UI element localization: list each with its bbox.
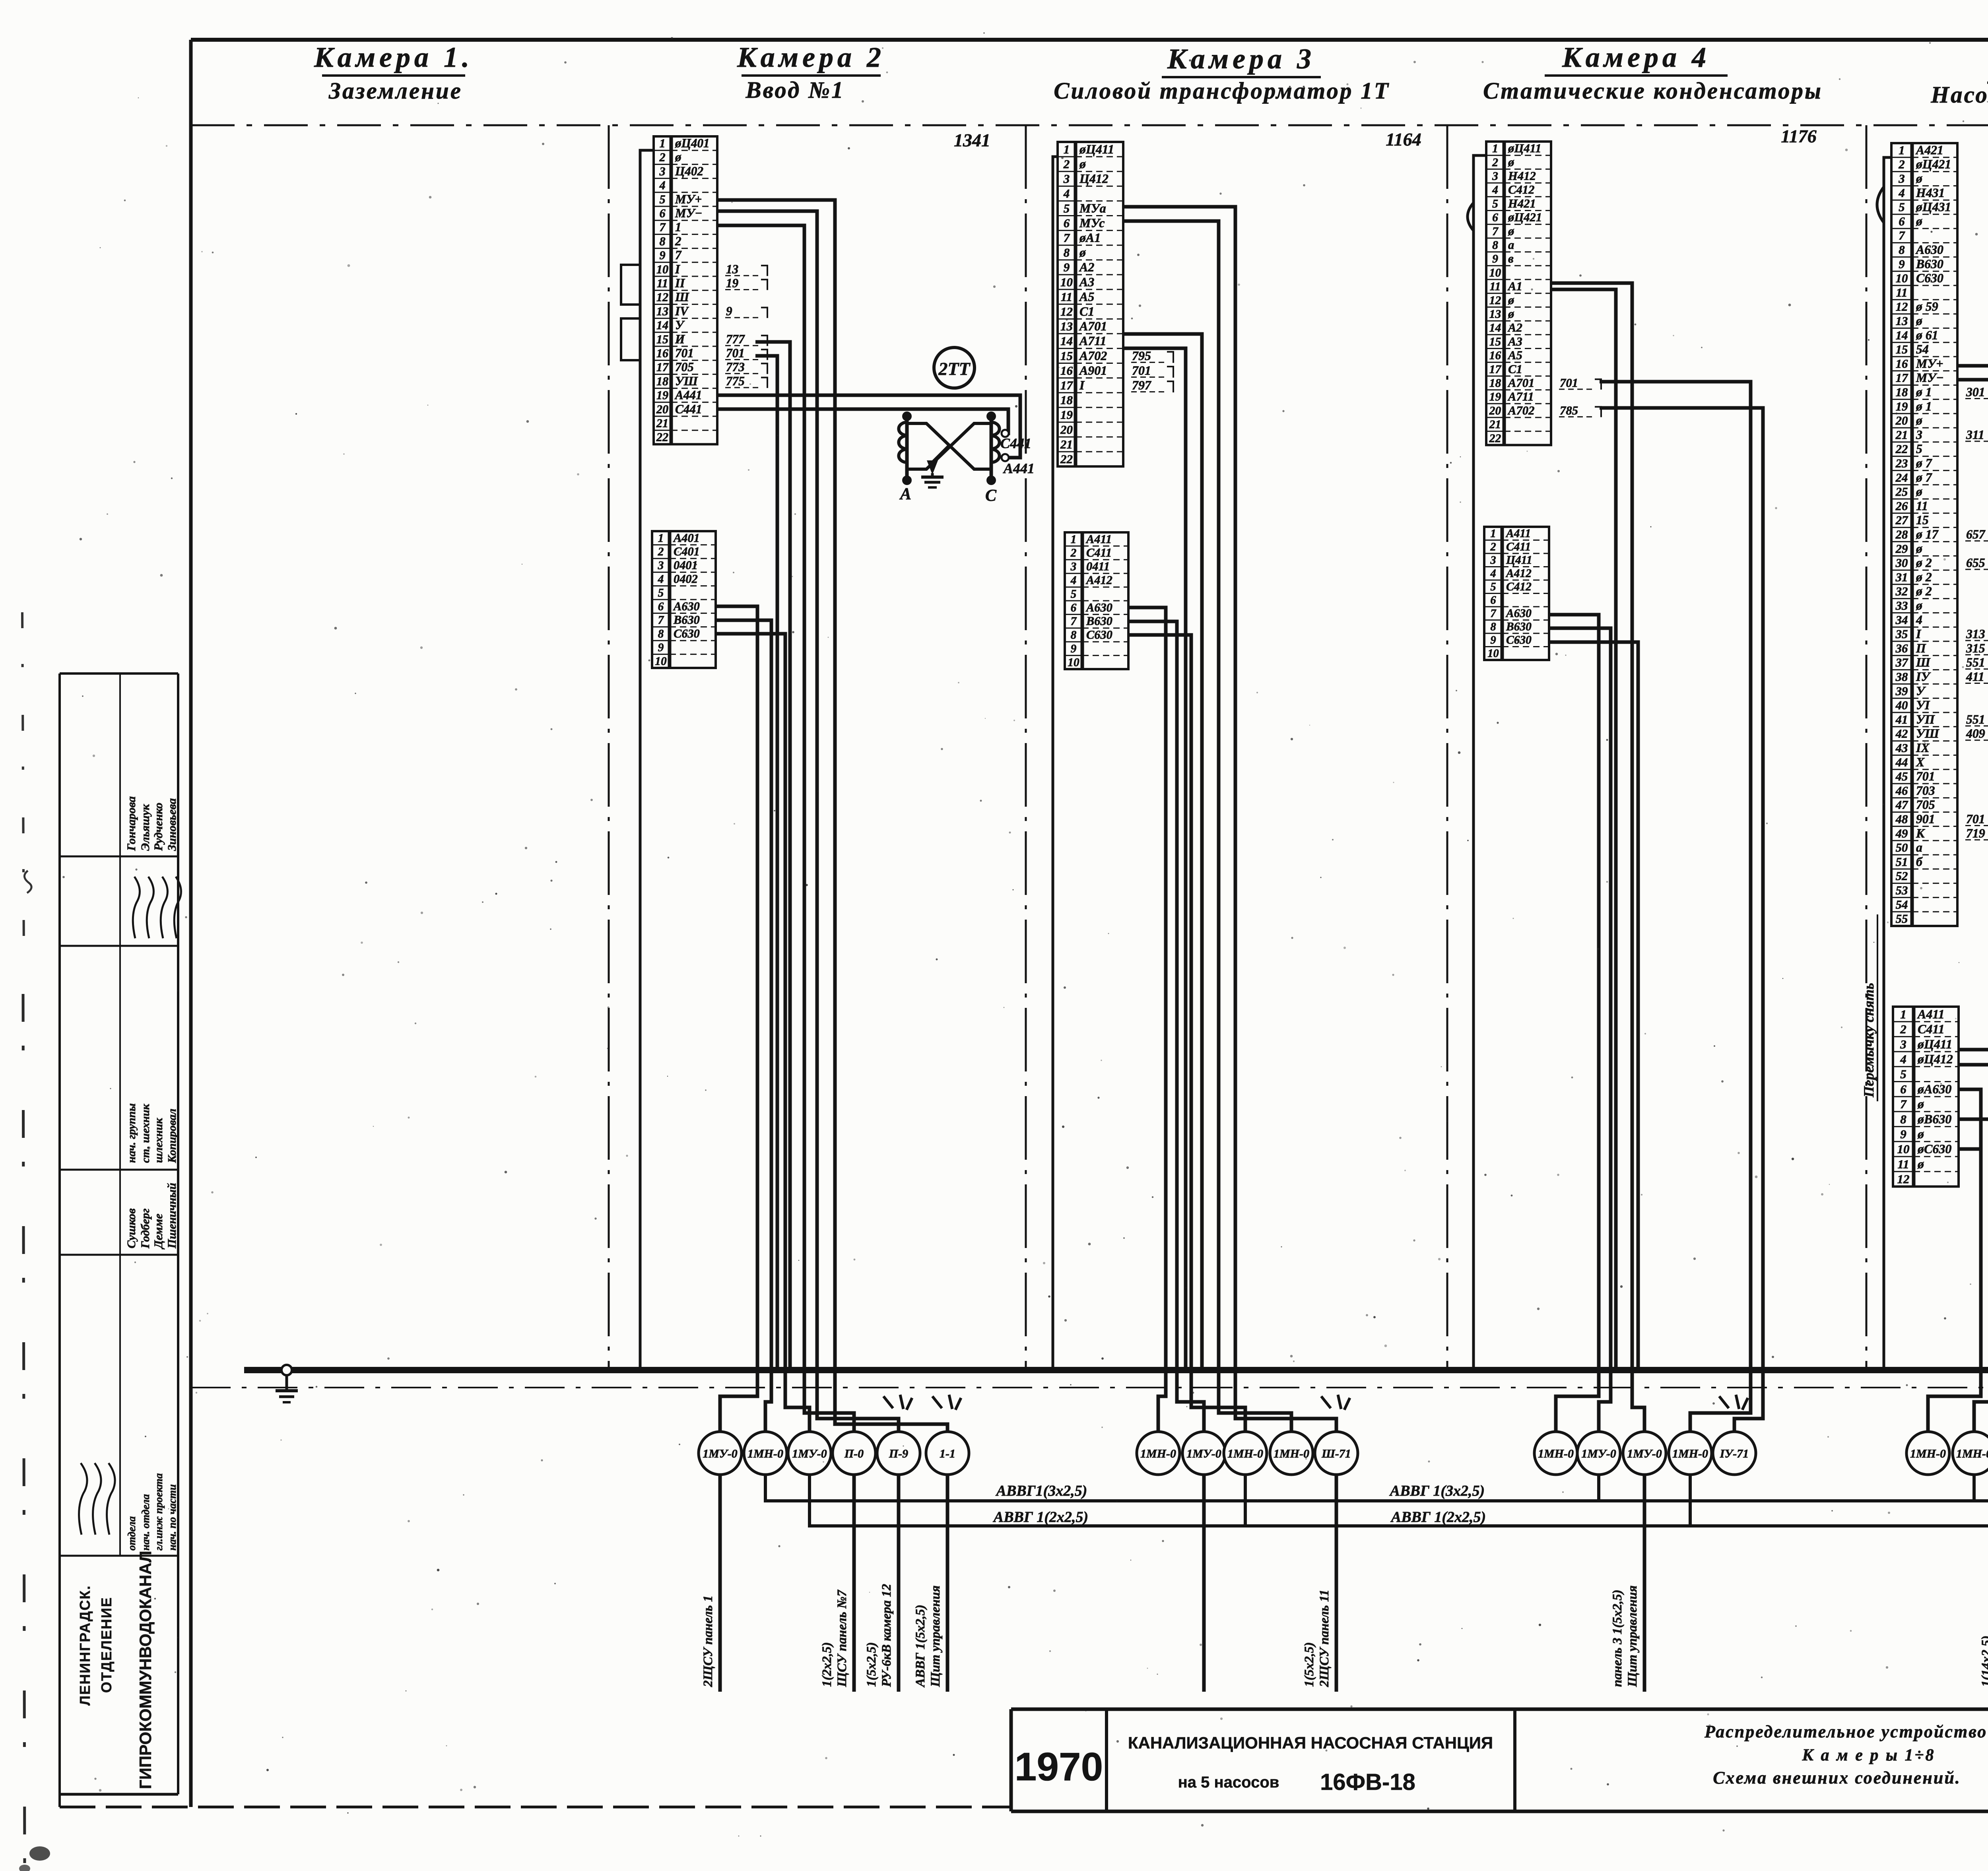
svg-text:701: 701 (675, 346, 694, 360)
svg-text:301: 301 (1966, 385, 1985, 399)
svg-text:на 5 насосов: на 5 насосов (1178, 1774, 1279, 1791)
svg-text:14: 14 (1060, 334, 1073, 348)
transformer 2ТТ windings and crossing wires (899, 411, 999, 485)
svg-text:ø 1: ø 1 (1916, 385, 1932, 399)
svg-text:ø: ø (1916, 542, 1922, 555)
svg-text:701: 701 (1966, 812, 1985, 826)
svg-text:10: 10 (1068, 656, 1079, 669)
svg-text:нач. группы: нач. группы (125, 1103, 138, 1163)
terminal strip Камера 5 lower (rows 1-12) (1893, 1007, 1959, 1186)
header Камера 5 Насосный агрегат N1 (1930, 49, 1988, 108)
svg-text:А5: А5 (1079, 289, 1094, 304)
header Камера 1 Заземление (314, 41, 473, 104)
svg-text:øЦ411: øЦ411 (1508, 142, 1541, 155)
section divider line 4 (1866, 125, 1868, 1368)
svg-text:а: а (1916, 840, 1922, 854)
svg-text:ø: ø (1917, 1157, 1924, 1171)
svg-text:28: 28 (1895, 528, 1908, 542)
svg-text:С630: С630 (1916, 271, 1943, 285)
terminal strip Камера 4 bracket line (1468, 155, 1486, 1368)
svg-text:Рудченко: Рудченко (152, 803, 165, 851)
svg-text:А411: А411 (1917, 1007, 1945, 1021)
rotated note Перемычку снять (камера 5) (1861, 914, 1877, 1101)
svg-text:4: 4 (1898, 186, 1905, 200)
svg-text:IХ: IХ (1916, 741, 1930, 755)
svg-text:Гончарова: Гончарова (125, 796, 138, 851)
current transformer 2ТТ designator circle (934, 347, 975, 388)
svg-text:50: 50 (1896, 841, 1908, 854)
svg-text:УI: УI (1916, 698, 1930, 712)
svg-text:15: 15 (656, 332, 668, 346)
svg-text:Ш: Ш (675, 290, 689, 304)
svg-text:10: 10 (1489, 266, 1501, 279)
svg-text:1МН-0: 1МН-0 (1956, 1447, 1988, 1460)
svg-text:1: 1 (1492, 142, 1498, 155)
section divider line 1 (608, 125, 610, 1368)
terminal strip Камера 3 upper (rows 1-22) (1058, 142, 1173, 466)
svg-text:0401: 0401 (674, 559, 698, 572)
svg-text:20: 20 (656, 402, 668, 416)
svg-text:1: 1 (1071, 533, 1077, 546)
svg-text:4: 4 (659, 179, 665, 192)
svg-text:2: 2 (675, 234, 681, 248)
svg-text:551: 551 (1966, 712, 1985, 726)
svg-text:719: 719 (1966, 826, 1985, 840)
svg-text:8: 8 (1899, 243, 1905, 257)
svg-text:16: 16 (1896, 357, 1908, 371)
svg-text:В630: В630 (673, 613, 700, 627)
svg-text:705: 705 (1916, 798, 1935, 812)
svg-text:Ввод №1: Ввод №1 (745, 77, 845, 103)
strike marks above circle IУ-71 (1719, 1395, 1748, 1410)
svg-text:13: 13 (1489, 308, 1501, 320)
svg-text:А412: А412 (1085, 573, 1112, 587)
svg-text:А441: А441 (674, 388, 702, 402)
svg-text:2ТТ: 2ТТ (938, 359, 971, 379)
stamp signatures band 2 (133, 877, 181, 938)
Камера 5 wire bundle (1957, 366, 1988, 1370)
svg-text:1164: 1164 (1386, 129, 1421, 149)
svg-text:6: 6 (658, 600, 664, 613)
svg-text:55: 55 (1896, 912, 1908, 926)
svg-text:нач. отдела: нач. отдела (140, 1494, 151, 1551)
svg-text:ø 17: ø 17 (1916, 528, 1939, 542)
svg-text:35: 35 (1895, 627, 1908, 641)
svg-text:У: У (1916, 684, 1926, 698)
svg-text:УШ: УШ (1916, 727, 1939, 741)
cable circles wires Камера 2 (720, 1370, 947, 1432)
svg-text:5: 5 (1900, 1067, 1906, 1081)
terminal strip Камера 5 bracket line (1877, 157, 1891, 1368)
svg-text:315: 315 (1966, 641, 1985, 655)
svg-text:АВВГ 1(3х2,5): АВВГ 1(3х2,5) (1389, 1483, 1485, 1499)
svg-text:А701: А701 (1507, 376, 1535, 390)
svg-text:657: 657 (1966, 528, 1986, 542)
svg-text:А901: А901 (1079, 363, 1107, 377)
cable circles wires Камера 4 (1556, 1370, 1763, 1432)
svg-text:ø 1: ø 1 (1916, 399, 1932, 413)
svg-text:22: 22 (1895, 443, 1908, 456)
svg-text:АВВГ 1(5х2,5): АВВГ 1(5х2,5) (913, 1605, 928, 1688)
cable run АВВГ1(2х2,5) (810, 1475, 1988, 1526)
svg-text:А411: А411 (1505, 527, 1531, 540)
svg-text:10: 10 (1896, 272, 1908, 285)
svg-text:5: 5 (1899, 200, 1905, 214)
svg-text:øА1: øА1 (1079, 231, 1101, 245)
svg-text:10: 10 (655, 655, 667, 668)
svg-text:ø: ø (1916, 413, 1922, 427)
svg-text:3: 3 (1063, 172, 1070, 186)
svg-text:7: 7 (1492, 225, 1499, 238)
cable circles group Камера 2 (699, 1432, 969, 1475)
svg-text:795: 795 (1132, 348, 1151, 363)
svg-text:13: 13 (656, 305, 668, 318)
outgoing cable at x=2260 (864, 1475, 899, 1692)
svg-text:С411: С411 (1918, 1022, 1945, 1036)
svg-text:А441: А441 (1003, 460, 1035, 476)
svg-text:18: 18 (1060, 393, 1073, 407)
svg-text:9: 9 (1064, 260, 1070, 274)
section divider line 2 (1025, 125, 1027, 1368)
svg-text:37: 37 (1895, 656, 1908, 670)
svg-text:Ц411: Ц411 (1506, 554, 1532, 567)
terminal strip Камера 2 bracket line (621, 150, 654, 1368)
svg-text:А630: А630 (673, 600, 700, 613)
svg-text:В630: В630 (1916, 257, 1943, 271)
svg-text:АВВГ1(3х2,5): АВВГ1(3х2,5) (996, 1483, 1087, 1499)
svg-text:6: 6 (1899, 215, 1905, 228)
svg-text:47: 47 (1895, 798, 1908, 812)
svg-text:А711: А711 (1079, 334, 1107, 348)
svg-text:7: 7 (1064, 231, 1070, 245)
svg-text:А630: А630 (1085, 601, 1112, 614)
svg-text:ø 7: ø 7 (1916, 456, 1932, 470)
svg-text:7: 7 (659, 221, 666, 234)
outgoing cable at x=5064 (1979, 1475, 1988, 1692)
svg-text:17: 17 (1896, 371, 1908, 385)
svg-text:КАНАЛИЗАЦИОННАЯ НАСОСНАЯ СТА: КАНАЛИЗАЦИОННАЯ НАСОСНАЯ СТАНЦИЯ (1128, 1733, 1493, 1752)
svg-text:1: 1 (659, 136, 665, 150)
svg-text:15: 15 (1896, 343, 1908, 356)
svg-text:ø: ø (1508, 155, 1514, 169)
svg-text:9: 9 (659, 248, 665, 262)
main earthing bus (244, 1367, 1988, 1373)
svg-text:5: 5 (1492, 198, 1498, 210)
svg-text:16: 16 (1489, 349, 1501, 362)
svg-text:Ш-71: Ш-71 (1321, 1447, 1351, 1460)
svg-text:панель 3 1(5х2,5): панель 3 1(5х2,5) (1610, 1590, 1625, 1687)
labels С441 А441 near 2ТТ (1000, 435, 1035, 476)
svg-text:ЛЕНИНГРАДСК.: ЛЕНИНГРАДСК. (77, 1585, 93, 1706)
svg-text:А412: А412 (1505, 567, 1532, 580)
svg-text:13: 13 (726, 262, 738, 276)
svg-text:Схема внешних соединений: Схема внешних соединений. (1713, 1768, 1961, 1788)
svg-text:9: 9 (726, 304, 732, 318)
svg-text:8: 8 (1064, 246, 1070, 260)
svg-text:14: 14 (1896, 328, 1908, 342)
svg-text:ø: ø (1917, 1127, 1924, 1141)
svg-text:А702: А702 (1079, 348, 1107, 363)
svg-text:ø: ø (1916, 172, 1922, 186)
svg-text:ø: ø (1916, 214, 1922, 228)
svg-text:гл.инж проекта: гл.инж проекта (153, 1473, 165, 1551)
svg-text:øЦ431: øЦ431 (1916, 200, 1951, 214)
svg-text:Распределительное устройство: Распределительное устройство РУ-6кВ (1704, 1722, 1988, 1741)
svg-text:7: 7 (1071, 615, 1077, 628)
svg-text:20: 20 (1060, 423, 1073, 437)
strike marks above circle 1-1 (932, 1395, 961, 1410)
svg-text:1: 1 (658, 532, 664, 545)
svg-text:7: 7 (1899, 229, 1905, 243)
svg-text:701: 701 (1132, 363, 1151, 377)
svg-text:I: I (1916, 627, 1922, 641)
svg-text:П: П (1916, 641, 1926, 655)
svg-text:3: 3 (1900, 1037, 1906, 1051)
svg-text:1МН-0: 1МН-0 (1910, 1447, 1946, 1460)
svg-text:2: 2 (1898, 158, 1905, 171)
svg-text:45: 45 (1895, 770, 1908, 783)
svg-text:ø: ø (1508, 293, 1514, 307)
svg-text:1МУ-0: 1МУ-0 (1186, 1447, 1221, 1460)
svg-text:1МН-0: 1МН-0 (1227, 1447, 1263, 1460)
svg-text:29: 29 (1895, 542, 1908, 555)
svg-text:54: 54 (1916, 342, 1929, 356)
svg-text:А711: А711 (1507, 390, 1534, 404)
svg-text:øЦ401: øЦ401 (675, 136, 710, 150)
svg-text:ø 2: ø 2 (1916, 584, 1932, 598)
ground connection on bus (276, 1365, 298, 1402)
svg-text:12: 12 (1897, 1172, 1910, 1186)
svg-text:IУ-71: IУ-71 (1720, 1447, 1749, 1460)
ground symbol under 2ТТ (921, 460, 944, 487)
svg-text:10: 10 (1897, 1142, 1910, 1156)
svg-text:øЦ411: øЦ411 (1079, 142, 1114, 156)
svg-text:ЩСУ панель №7: ЩСУ панель №7 (835, 1590, 849, 1687)
svg-text:3: 3 (1916, 428, 1922, 442)
svg-text:С441: С441 (675, 402, 702, 416)
svg-text:Н421: Н421 (1508, 197, 1536, 210)
svg-text:Годберг: Годберг (139, 1209, 152, 1249)
terminal strip Камера 3 bracket line (1053, 157, 1058, 1368)
svg-text:2: 2 (1490, 541, 1496, 553)
svg-text:797: 797 (1132, 378, 1152, 392)
header separator dashed line (191, 124, 1988, 126)
svg-text:7: 7 (658, 614, 664, 627)
terminal strip Камера 3 lower (rows 1-10) (1065, 532, 1128, 669)
svg-text:777: 777 (726, 332, 745, 346)
svg-text:ø: ø (1508, 307, 1514, 320)
svg-text:42: 42 (1895, 727, 1908, 741)
svg-text:П-0: П-0 (844, 1447, 864, 1460)
svg-text:Силовой трансформатор 1Т: Силовой трансформатор 1Т (1054, 78, 1390, 104)
svg-text:11: 11 (1489, 280, 1501, 293)
svg-text:С630: С630 (1506, 634, 1532, 646)
svg-text:18: 18 (656, 375, 668, 388)
svg-text:21: 21 (1060, 437, 1073, 451)
svg-text:1МУ-0: 1МУ-0 (1581, 1447, 1616, 1460)
svg-text:К: К (1916, 826, 1925, 840)
svg-text:øЦ421: øЦ421 (1508, 211, 1542, 224)
svg-text:УП: УП (1916, 712, 1935, 726)
svg-text:40: 40 (1895, 699, 1908, 712)
svg-text:6: 6 (1492, 212, 1498, 224)
svg-text:ø 2: ø 2 (1916, 570, 1932, 584)
outgoing cable at x=1811 (701, 1475, 720, 1692)
svg-text:1: 1 (1064, 142, 1070, 156)
svg-text:ø: ø (1916, 314, 1922, 328)
svg-text:19: 19 (726, 276, 739, 290)
svg-text:18: 18 (1896, 386, 1908, 399)
svg-text:6: 6 (1900, 1082, 1906, 1096)
svg-text:øЦ411: øЦ411 (1917, 1037, 1952, 1051)
svg-text:6: 6 (1064, 216, 1070, 230)
svg-text:øА630: øА630 (1917, 1082, 1951, 1096)
cable run АВВГ1(3х2,5) (765, 1475, 1988, 1501)
svg-text:С630: С630 (674, 627, 700, 640)
svg-text:17: 17 (1489, 363, 1502, 376)
svg-text:48: 48 (1895, 813, 1908, 826)
terminal strip Камера 4 lower (rows 1-10) (1484, 527, 1549, 660)
svg-text:Щит управления: Щит управления (928, 1586, 943, 1687)
svg-text:8: 8 (1071, 629, 1077, 642)
strike marks above circle Ш-71 (1321, 1395, 1350, 1410)
svg-text:Эльяшук: Эльяшук (139, 804, 152, 851)
svg-text:МУа: МУа (1079, 201, 1106, 215)
svg-text:5: 5 (1916, 442, 1922, 456)
svg-text:ø: ø (1079, 245, 1086, 260)
svg-text:10: 10 (656, 262, 668, 276)
svg-text:11: 11 (1896, 286, 1907, 299)
svg-text:ø 59: ø 59 (1916, 300, 1938, 314)
svg-text:А2: А2 (1079, 260, 1094, 274)
svg-text:27: 27 (1895, 514, 1908, 527)
svg-text:IV: IV (675, 304, 689, 318)
svg-text:4: 4 (658, 573, 664, 586)
svg-text:19: 19 (1060, 408, 1073, 422)
svg-text:Статические конденсаторы: Статические конденсаторы (1483, 78, 1823, 104)
svg-text:2ЩСУ панель 11: 2ЩСУ панель 11 (1317, 1590, 1332, 1687)
svg-text:5: 5 (1064, 201, 1070, 215)
svg-text:7: 7 (1900, 1097, 1907, 1111)
svg-text:3: 3 (1898, 172, 1905, 186)
svg-text:3: 3 (1070, 561, 1077, 573)
svg-text:С1: С1 (1079, 304, 1094, 318)
svg-text:12: 12 (1489, 294, 1501, 307)
svg-text:2: 2 (1063, 157, 1070, 171)
svg-text:24: 24 (1895, 471, 1908, 484)
svg-text:АВВГ 1(2х2,5): АВВГ 1(2х2,5) (993, 1509, 1088, 1526)
svg-text:31: 31 (1895, 571, 1908, 584)
stamp organisation band (77, 1551, 155, 1789)
Камера 4 wire bundle (1549, 283, 1763, 1370)
svg-text:9: 9 (1071, 642, 1077, 655)
svg-text:ø: ø (1917, 1097, 1924, 1111)
svg-text:49: 49 (1895, 827, 1908, 840)
svg-text:12: 12 (1060, 305, 1073, 318)
svg-text:1МН-0: 1МН-0 (1672, 1447, 1708, 1460)
outgoing cable at x=3361 (1302, 1475, 1336, 1692)
svg-text:901: 901 (1916, 812, 1935, 826)
svg-text:1(5х2,5): 1(5х2,5) (1302, 1642, 1316, 1687)
svg-text:Н431: Н431 (1916, 186, 1945, 200)
outgoing cable at x=4136 (1610, 1475, 1644, 1692)
svg-text:44: 44 (1895, 755, 1908, 769)
svg-text:32: 32 (1895, 585, 1908, 598)
svg-text:отдела: отдела (126, 1516, 138, 1551)
svg-text:Ц402: Ц402 (675, 164, 703, 178)
svg-text:25: 25 (1895, 485, 1908, 499)
svg-text:ø: ø (1916, 485, 1922, 499)
svg-text:В630: В630 (1086, 614, 1112, 628)
svg-text:23: 23 (1895, 457, 1908, 470)
svg-text:УШ: УШ (675, 374, 698, 388)
svg-text:53: 53 (1896, 884, 1908, 897)
svg-text:Ш: Ш (1916, 656, 1931, 670)
svg-text:313: 313 (1966, 627, 1985, 641)
svg-text:Н412: Н412 (1508, 169, 1536, 182)
svg-text:Насосный агрегат №1: Насосный агрегат №1 (1930, 82, 1988, 108)
svg-text:Пшеничный: Пшеничный (165, 1183, 179, 1249)
svg-text:С412: С412 (1506, 580, 1532, 593)
stamp roles band 3 (125, 1103, 179, 1163)
svg-text:А630: А630 (1505, 607, 1532, 620)
svg-text:6: 6 (659, 206, 666, 220)
svg-text:ø: ø (1079, 157, 1086, 171)
svg-text:9: 9 (1899, 257, 1905, 271)
svg-text:12: 12 (1896, 300, 1908, 314)
svg-text:С630: С630 (1086, 628, 1112, 642)
svg-text:4: 4 (1063, 186, 1070, 200)
svg-text:54: 54 (1896, 898, 1908, 911)
svg-text:II: II (675, 276, 685, 290)
svg-text:51: 51 (1896, 855, 1908, 869)
svg-text:Зиновьева: Зиновьева (165, 798, 179, 851)
svg-text:1970: 1970 (1015, 1745, 1103, 1789)
svg-text:7: 7 (1490, 607, 1497, 620)
svg-text:1МУ-0: 1МУ-0 (703, 1447, 738, 1460)
svg-text:20: 20 (1489, 404, 1501, 417)
svg-text:РУ-6кВ камера 12: РУ-6кВ камера 12 (879, 1584, 894, 1687)
svg-text:8: 8 (1900, 1112, 1906, 1126)
svg-text:11: 11 (1897, 1157, 1909, 1171)
svg-text:1-1: 1-1 (940, 1447, 955, 1460)
stamp names band 1 (125, 796, 179, 851)
svg-text:1МН-0: 1МН-0 (1140, 1447, 1176, 1460)
svg-text:16: 16 (1060, 363, 1073, 377)
svg-text:9: 9 (658, 641, 664, 654)
svg-text:в: в (1508, 252, 1514, 266)
svg-text:МУ−: МУ− (675, 206, 702, 220)
svg-text:ø: ø (1916, 599, 1922, 613)
svg-text:1МН-0: 1МН-0 (1538, 1447, 1574, 1460)
svg-text:ø: ø (1508, 224, 1514, 238)
svg-text:20: 20 (1895, 414, 1908, 427)
title block frame (1011, 1709, 1988, 1811)
svg-text:2: 2 (659, 151, 665, 164)
svg-text:785: 785 (1560, 404, 1578, 417)
svg-text:øЦ421: øЦ421 (1916, 157, 1951, 171)
svg-text:С412: С412 (1508, 183, 1535, 196)
svg-text:551: 551 (1966, 656, 1985, 670)
svg-text:Камера 4: Камера 4 (1562, 41, 1710, 73)
svg-text:8: 8 (659, 235, 665, 248)
svg-text:33: 33 (1895, 599, 1908, 613)
svg-text:11: 11 (1061, 290, 1072, 304)
svg-text:2: 2 (658, 545, 664, 558)
Камера 3 wire bundle (1123, 207, 1235, 1370)
strike marks above circle П-9 (883, 1395, 912, 1410)
header Камера 2 Ввод N1 (737, 41, 885, 103)
